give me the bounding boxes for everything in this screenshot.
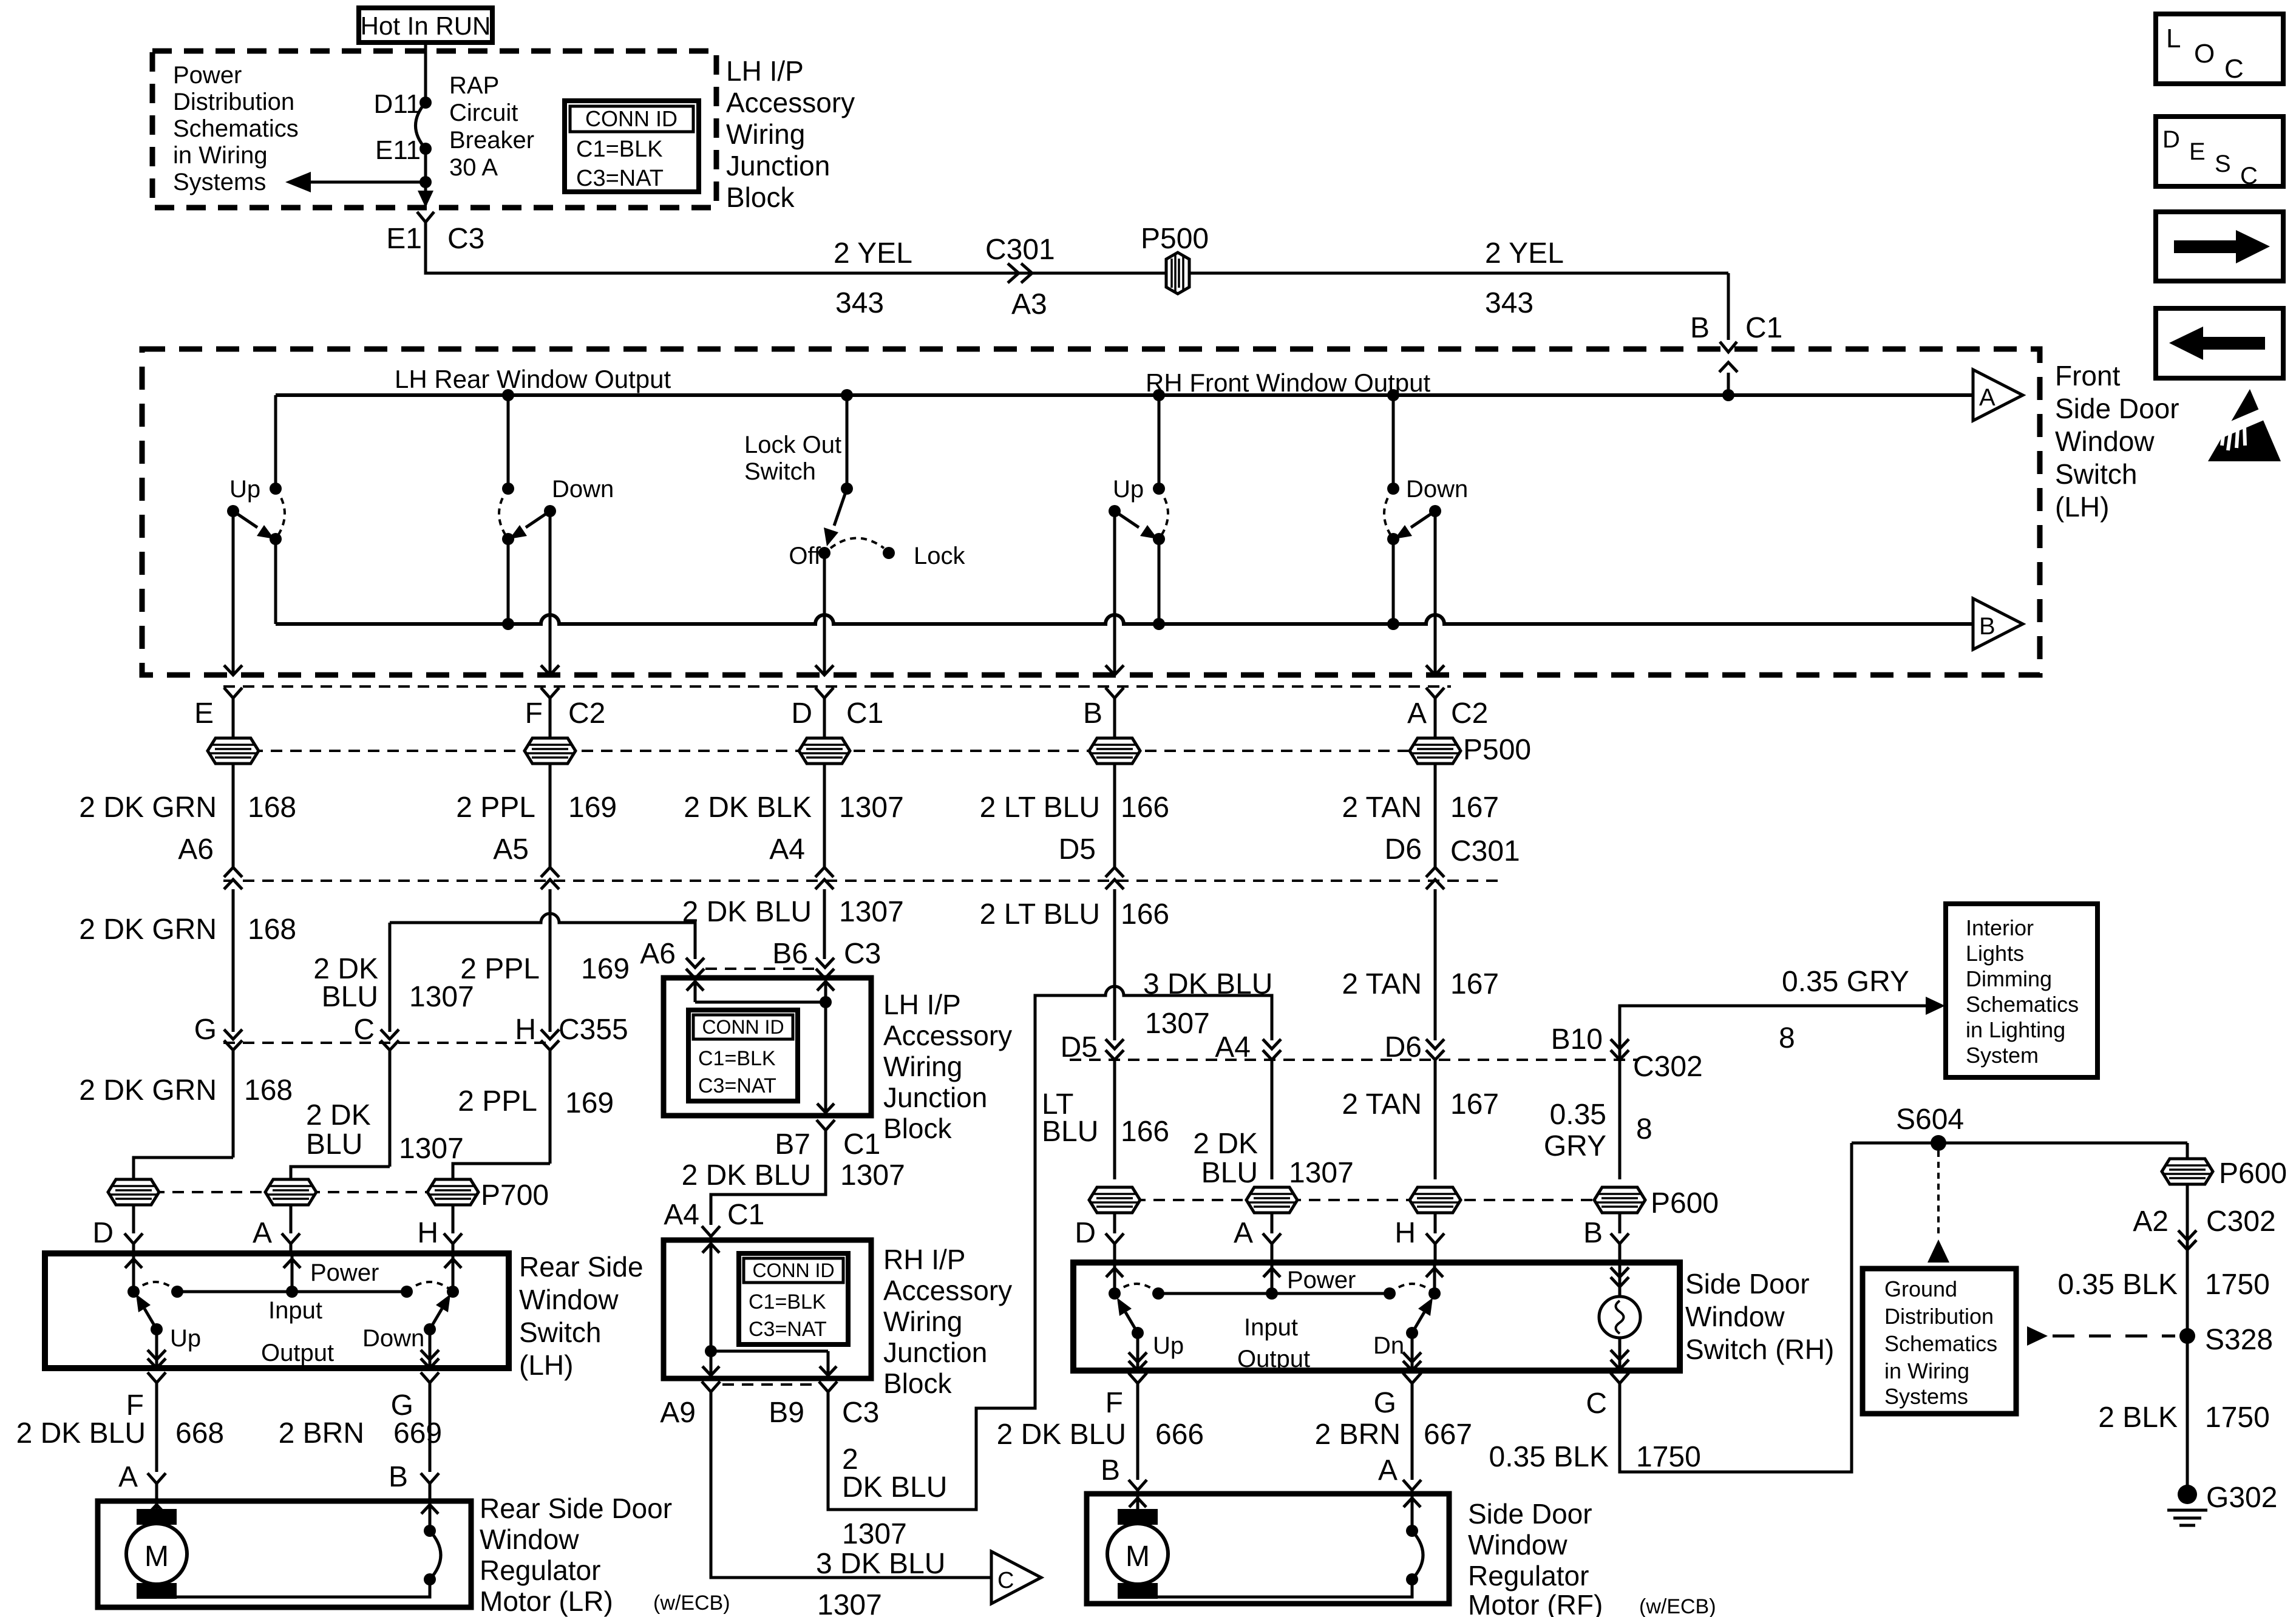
svg-text:B6: B6 (772, 938, 808, 970)
wire jog branch to P700 A (291, 1167, 390, 1179)
svg-text:C1: C1 (727, 1199, 764, 1231)
svg-text:A: A (118, 1461, 138, 1493)
svg-text:1307: 1307 (399, 1133, 464, 1165)
svg-text:1307: 1307 (817, 1589, 882, 1617)
svg-text:0.35 GRY: 0.35 GRY (1782, 966, 1909, 998)
connector pin A (RH switch) (1263, 1233, 1281, 1244)
svg-text:Power: Power (173, 62, 242, 89)
connector C301 A3 pass-through on feed wire (1008, 263, 1032, 283)
dashed box: Power Distribution Schematics (LH I/P junction block) (152, 51, 716, 208)
connector pin A (rear switch) (282, 1233, 300, 1244)
svg-text:2 BLK: 2 BLK (2098, 1402, 2178, 1434)
rear switch Down output arrow (429, 1329, 432, 1368)
nav box DESC (2156, 117, 2283, 186)
wire: 0.35 BLK 1750 from C to S604 (1620, 1143, 1852, 1472)
component box: Rear Side Door Window Regulator Motor (LR) (98, 1501, 471, 1607)
wire: power branch down at x642 (389, 923, 392, 1032)
rear switch travel arcs (dashed) (134, 1282, 177, 1292)
svg-text:Switch: Switch (519, 1317, 601, 1348)
svg-text:Schematics: Schematics (173, 115, 299, 142)
svg-text:Input: Input (268, 1297, 322, 1324)
nav box LOC (2156, 14, 2283, 84)
connector C302 pin D6 (1426, 1039, 1444, 1049)
svg-text:Hot In RUN: Hot In RUN (361, 12, 491, 40)
wire: right ground vertical (2186, 1143, 2189, 1488)
svg-text:Wiring: Wiring (883, 1051, 962, 1082)
connector triangle C (991, 1551, 1041, 1604)
motor RF B input arrow (1136, 1494, 1140, 1509)
svg-text:C1: C1 (843, 1128, 880, 1161)
connector P700 pass-through at x=746 (427, 1179, 478, 1205)
svg-text:Systems: Systems (173, 169, 266, 195)
svg-text:1750: 1750 (2205, 1402, 2270, 1434)
splice node S328 (2179, 1328, 2195, 1344)
svg-text:2 LT BLU: 2 LT BLU (980, 792, 1100, 824)
node E11 (419, 143, 432, 155)
wire power column to P600 A (1271, 1060, 1274, 1179)
svg-text:Schematics: Schematics (1966, 992, 2079, 1017)
connector C355 pin C (381, 1029, 399, 1039)
svg-text:A2: A2 (2133, 1205, 2169, 1238)
bottom bus junction nodes (502, 618, 514, 630)
svg-text:B10: B10 (1551, 1023, 1603, 1056)
svg-text:Up: Up (1153, 1332, 1184, 1359)
connector pin A (motor RF) (1403, 1480, 1421, 1490)
svg-text:C3: C3 (842, 1397, 879, 1429)
svg-text:2 TAN: 2 TAN (1342, 792, 1422, 824)
svg-text:Up: Up (229, 476, 260, 503)
svg-text:Side Door: Side Door (1468, 1498, 1592, 1530)
wire drop to B C1 of front switch (1727, 273, 1730, 340)
wire A column to P600 H (1434, 1060, 1437, 1179)
svg-text:3 DK BLU: 3 DK BLU (1143, 968, 1272, 1000)
svg-text:Block: Block (883, 1113, 952, 1144)
svg-text:Down: Down (552, 476, 614, 503)
motor RF A input arrow (1411, 1494, 1414, 1531)
connector pin G (fork) (421, 1372, 439, 1383)
connector P500 pass-through at x=906 (525, 738, 576, 764)
connector row C301 (dashed) (223, 880, 1506, 882)
svg-text:2 YEL: 2 YEL (834, 237, 912, 269)
svg-text:1750: 1750 (1636, 1441, 1701, 1473)
svg-text:1307: 1307 (840, 1159, 905, 1192)
connector P600 pass-through (right) (2162, 1159, 2213, 1184)
rear switch input bus (177, 1290, 407, 1293)
svg-text:Up: Up (170, 1325, 201, 1352)
CONN ID table (LH I/P middle) (688, 1010, 798, 1101)
svg-text:D11: D11 (374, 89, 421, 119)
ESD sensitive device symbol (2208, 389, 2281, 461)
svg-text:2 DK GRN: 2 DK GRN (79, 914, 217, 946)
RH junction internal bus (705, 1345, 717, 1357)
svg-text:D: D (92, 1217, 114, 1249)
svg-text:A4: A4 (664, 1199, 699, 1231)
connector C301 pin A4 (815, 867, 834, 877)
svg-text:(LH): (LH) (519, 1349, 573, 1381)
component box: Ground Distribution Schematics in Wiring Systems (1863, 1269, 2016, 1414)
svg-text:2 YEL: 2 YEL (1485, 237, 1564, 269)
motor LR B input arrow (429, 1501, 432, 1531)
svg-text:669: 669 (393, 1417, 442, 1449)
svg-text:2 PPL: 2 PPL (458, 1085, 537, 1117)
svg-text:in Wiring: in Wiring (173, 142, 268, 169)
junction node with arrow to Power Distribution (419, 176, 432, 188)
RH switch Up blade (1132, 1327, 1144, 1339)
RH switch Dn blade (1406, 1327, 1418, 1339)
svg-text:C: C (1586, 1388, 1607, 1420)
svg-text:Accessory: Accessory (726, 87, 855, 118)
svg-text:B: B (1583, 1217, 1603, 1249)
motor M symbol (LR) (137, 1509, 177, 1525)
svg-text:343: 343 (1485, 287, 1533, 319)
motor LR internal bottom wire (157, 1579, 430, 1599)
connector pin H (RH switch) (1426, 1233, 1444, 1244)
svg-text:P600: P600 (1651, 1187, 1719, 1219)
svg-text:Junction: Junction (883, 1337, 987, 1368)
node D11 (419, 97, 432, 109)
svg-text:167: 167 (1450, 792, 1499, 824)
svg-text:C: C (2240, 163, 2258, 189)
svg-text:CONN ID: CONN ID (702, 1016, 784, 1038)
connector C302 pin A2 (2178, 1230, 2196, 1240)
connector pin A (motor LR) (148, 1473, 166, 1483)
svg-text:Down: Down (1406, 476, 1468, 503)
svg-text:2 DK BLU: 2 DK BLU (997, 1419, 1126, 1451)
svg-text:Junction: Junction (726, 150, 830, 181)
svg-text:Side Door: Side Door (1685, 1268, 1810, 1300)
svg-text:A: A (1407, 697, 1427, 730)
svg-text:Regulator: Regulator (480, 1554, 600, 1586)
svg-text:Lock: Lock (914, 543, 965, 569)
motor LR A input arrow (155, 1501, 158, 1509)
svg-text:0.35: 0.35 (1550, 1099, 1606, 1131)
svg-text:BLU: BLU (322, 981, 378, 1013)
svg-text:E11: E11 (375, 135, 421, 165)
svg-text:2 DK BLU: 2 DK BLU (16, 1417, 146, 1449)
connector C302 pin D5 (1106, 1039, 1124, 1049)
splice S604 wire (1852, 1142, 2187, 1145)
svg-text:1307: 1307 (1289, 1157, 1354, 1189)
svg-text:M: M (1126, 1541, 1150, 1573)
svg-text:A3: A3 (1011, 288, 1047, 320)
svg-text:Side Door: Side Door (2055, 393, 2179, 424)
svg-text:3 DK BLU: 3 DK BLU (816, 1548, 945, 1580)
svg-text:Power: Power (1287, 1267, 1356, 1293)
svg-text:Switch (RH): Switch (RH) (1685, 1334, 1834, 1365)
wire: 0.35 GRY 8 to interior lights dimming (1620, 1006, 1926, 1060)
svg-text:BLU: BLU (1042, 1116, 1098, 1148)
svg-text:Window: Window (1468, 1529, 1567, 1561)
svg-text:Window: Window (2055, 425, 2155, 457)
wire from Hot In RUN to breaker (424, 42, 427, 103)
svg-text:RAP: RAP (449, 72, 499, 99)
svg-text:Distribution: Distribution (173, 89, 294, 115)
RH switch Power input arrow (1271, 1264, 1274, 1293)
svg-text:H: H (417, 1217, 438, 1249)
svg-text:H: H (1394, 1217, 1416, 1249)
connector P500 pass-through at x=1836 (1089, 738, 1140, 764)
svg-text:169: 169 (565, 1087, 614, 1119)
nav box arrow right (2156, 212, 2283, 281)
connector row C3 of LH I/P (dashed) (705, 968, 817, 970)
RH switch H input arrow (1433, 1264, 1436, 1293)
connector pin B7 C1 (fork) (817, 1120, 835, 1130)
rear switch Power input arrow (291, 1255, 294, 1292)
wire: power tap from A6 of junction block (hops F column) (390, 914, 695, 959)
RH switch Dn output arrow (1411, 1333, 1414, 1371)
svg-text:0.35 BLK: 0.35 BLK (1489, 1441, 1609, 1473)
svg-text:Wiring: Wiring (883, 1306, 962, 1337)
svg-text:2 DK BLU: 2 DK BLU (682, 896, 812, 928)
svg-text:169: 169 (581, 953, 630, 985)
svg-text:Distribution: Distribution (1884, 1304, 1994, 1329)
connector pin H (rear switch) (444, 1233, 462, 1244)
svg-text:in Lighting: in Lighting (1966, 1017, 2065, 1042)
svg-text:A6: A6 (178, 833, 214, 866)
svg-text:Lock Out: Lock Out (744, 432, 841, 458)
svg-text:Accessory: Accessory (883, 1275, 1012, 1306)
svg-text:G: G (1374, 1387, 1396, 1419)
svg-text:M: M (144, 1541, 169, 1573)
motor RF internal bottom wire (1138, 1579, 1412, 1599)
circuit breaker RAP 30A arc (416, 103, 426, 149)
svg-text:D: D (1075, 1217, 1096, 1249)
svg-text:B: B (1101, 1454, 1120, 1486)
svg-text:1307: 1307 (409, 981, 474, 1013)
svg-text:Accessory: Accessory (883, 1020, 1012, 1051)
svg-text:166: 166 (1121, 792, 1169, 824)
svg-text:Output: Output (261, 1340, 334, 1366)
svg-text:C1=BLK: C1=BLK (698, 1047, 776, 1070)
wire B10 column to P600 B (1618, 1060, 1622, 1179)
svg-text:(w/ECB): (w/ECB) (653, 1592, 730, 1615)
nav box arrow left (2156, 308, 2283, 378)
arrow down to E1 pin (424, 182, 427, 205)
wire A column below C301 (1434, 889, 1437, 1040)
connector row P600 (dashed) (1115, 1199, 1646, 1201)
svg-text:B: B (1979, 613, 1995, 640)
connector pin A C2 (fork) (1426, 688, 1444, 698)
svg-text:D6: D6 (1385, 833, 1422, 866)
svg-text:C1=BLK: C1=BLK (749, 1290, 826, 1314)
svg-text:Schematics: Schematics (1884, 1331, 1997, 1356)
svg-text:DK BLU: DK BLU (842, 1471, 947, 1503)
svg-text:1307: 1307 (839, 792, 904, 824)
svg-text:C302: C302 (1633, 1051, 1703, 1083)
ground G302 (2178, 1485, 2197, 1504)
svg-text:Lights: Lights (1966, 941, 2024, 966)
svg-text:1307: 1307 (1145, 1008, 1210, 1040)
svg-text:Circuit: Circuit (449, 100, 518, 126)
svg-text:A9: A9 (660, 1397, 696, 1429)
svg-text:Rear Side Door: Rear Side Door (480, 1493, 672, 1524)
svg-text:166: 166 (1121, 898, 1169, 931)
rear switch Up blade (151, 1323, 163, 1335)
connector C302 pin B10 (1611, 1039, 1629, 1049)
svg-text:166: 166 (1121, 1116, 1169, 1148)
svg-text:A: A (253, 1217, 272, 1249)
svg-text:Window: Window (1685, 1301, 1785, 1332)
top bus junction nodes (502, 389, 514, 401)
svg-text:CONN ID: CONN ID (752, 1259, 834, 1281)
RH switch input bus (1158, 1292, 1390, 1295)
connector pin G (RH fork) (1403, 1373, 1421, 1383)
connector pin F (fork) (148, 1372, 166, 1383)
switch: RH front Up (1158, 395, 1161, 489)
svg-text:B: B (1083, 697, 1102, 730)
svg-text:30 A: 30 A (449, 154, 498, 181)
connector pin B (fork) (1106, 688, 1124, 698)
component box: LH I/P Accessory Wiring Junction Block (middle) (664, 978, 871, 1116)
rear switch Down blade (424, 1323, 436, 1335)
connector P500 pass-through at x=1358 (799, 738, 850, 764)
switch: lockout (846, 395, 849, 489)
svg-text:Dn: Dn (1373, 1332, 1404, 1359)
wire: 2 YEL 343 feed from E1 to front switch (426, 222, 1728, 273)
dashed reference drop from S604 (1937, 1151, 1940, 1236)
svg-text:CONN ID: CONN ID (585, 106, 678, 131)
connector row below switch (dashed) (223, 685, 1451, 688)
connector C355 pin H (541, 1029, 559, 1039)
svg-text:C: C (997, 1568, 1014, 1593)
svg-text:LH I/P: LH I/P (726, 55, 804, 87)
svg-text:S328: S328 (2205, 1324, 2273, 1356)
svg-text:F: F (1106, 1387, 1123, 1419)
RH switch travel arcs (dashed) (1115, 1284, 1158, 1293)
connector row P500 (dashed) (212, 750, 1457, 752)
svg-text:8: 8 (1636, 1113, 1652, 1145)
svg-text:BLU: BLU (306, 1128, 362, 1161)
connector P600 pass-through at x=2364 (1410, 1187, 1461, 1213)
svg-text:C: C (353, 1014, 375, 1046)
svg-text:2 DK: 2 DK (1193, 1128, 1258, 1160)
svg-text:169: 169 (568, 792, 617, 824)
svg-text:Window: Window (480, 1524, 579, 1555)
svg-text:A6: A6 (640, 938, 676, 970)
Hot In RUN power label box (359, 8, 492, 42)
RH switch Up output arrow (1136, 1333, 1140, 1371)
connector pin A6 into LH I/P block (686, 958, 704, 968)
svg-text:E1: E1 (386, 223, 422, 255)
connector pin B (RH switch) (1611, 1233, 1629, 1244)
svg-text:C3: C3 (844, 938, 881, 970)
connector C355 pin G (224, 1029, 242, 1039)
svg-text:Switch: Switch (2055, 458, 2137, 490)
CONN ID table (LH I/P) (565, 101, 699, 192)
svg-text:Junction: Junction (883, 1082, 987, 1113)
connector C301 pin D5 (1106, 867, 1124, 877)
motor M symbol (RF) (1118, 1509, 1158, 1525)
svg-text:C301: C301 (1450, 835, 1520, 867)
switch: LH rear Down (507, 395, 510, 489)
wire: 2 DK BLU 1307 from B7 to A4 (711, 1130, 826, 1225)
svg-text:C3: C3 (447, 223, 484, 255)
svg-text:Front: Front (2055, 360, 2121, 392)
svg-text:P500: P500 (1463, 734, 1531, 766)
svg-text:2 DK BLU: 2 DK BLU (682, 1159, 811, 1192)
connector P700 pass-through at x=220 (108, 1179, 159, 1205)
svg-text:C302: C302 (2206, 1205, 2276, 1238)
component box: Rear Side Window Switch (LH) (45, 1253, 509, 1368)
svg-text:Block: Block (883, 1368, 952, 1399)
svg-text:P500: P500 (1141, 223, 1209, 255)
svg-text:C2: C2 (1451, 697, 1488, 730)
wire jog F column to P700 H (453, 1164, 550, 1179)
connector C301 pin A6 (224, 867, 242, 877)
svg-text:666: 666 (1155, 1419, 1204, 1451)
connector pin B6 C3 into LH I/P block (816, 958, 834, 968)
svg-text:167: 167 (1450, 968, 1499, 1000)
svg-text:C1: C1 (1745, 312, 1782, 344)
svg-text:C301: C301 (985, 234, 1055, 266)
connector row C355 (dashed) (223, 1042, 549, 1044)
connector row P700 (dashed) (134, 1191, 480, 1193)
svg-text:A5: A5 (493, 833, 529, 866)
svg-text:GRY: GRY (1544, 1130, 1606, 1162)
switch: RH front Down (1392, 395, 1395, 489)
svg-text:A: A (1234, 1217, 1253, 1249)
CONN ID table (RH I/P) (739, 1253, 848, 1344)
svg-text:668: 668 (175, 1417, 224, 1449)
svg-text:G302: G302 (2206, 1482, 2277, 1514)
wire E11 to junction (424, 149, 427, 182)
dashed reference arrow to S328 (2027, 1326, 2048, 1346)
svg-text:2 BRN: 2 BRN (279, 1417, 364, 1449)
wire D column below C301 (823, 889, 826, 959)
RH switch D input arrow (1113, 1264, 1116, 1293)
svg-text:D5: D5 (1059, 833, 1096, 866)
svg-text:E: E (194, 697, 214, 730)
svg-text:Power: Power (310, 1259, 379, 1286)
connector C301 pin D6 (1426, 867, 1444, 877)
svg-text:C2: C2 (568, 697, 605, 730)
component box: Interior Lights Dimming Schematics in Lighting System (1946, 904, 2097, 1077)
svg-text:Breaker: Breaker (449, 127, 534, 154)
svg-text:Up: Up (1113, 476, 1144, 503)
svg-text:H: H (515, 1014, 536, 1046)
dashed box: Front Side Door Window Switch (LH) (142, 349, 2040, 675)
wire B column below C301 (1113, 889, 1116, 1040)
RH switch illumination bulb (1618, 1264, 1622, 1297)
connector pin A9 (fork) (702, 1381, 720, 1392)
svg-text:Input: Input (1244, 1314, 1298, 1341)
top bus wire (276, 393, 1973, 397)
svg-text:Rear Side: Rear Side (519, 1251, 644, 1283)
svg-text:2 TAN: 2 TAN (1342, 1088, 1422, 1120)
svg-text:168: 168 (248, 914, 296, 946)
svg-text:Systems: Systems (1884, 1384, 1968, 1409)
connector P600 pass-through at x=2095 (1246, 1187, 1297, 1213)
svg-text:C3=NAT: C3=NAT (698, 1074, 776, 1097)
connector pin D C1 (fork) (815, 688, 834, 698)
svg-text:Interior: Interior (1966, 915, 2034, 940)
switch: LH rear Up (274, 395, 277, 489)
connector pin C (RH switch fork) (1611, 1373, 1629, 1383)
rear switch Up output arrow (155, 1329, 158, 1368)
connector pin D (RH switch) (1106, 1233, 1124, 1244)
svg-text:Dimming: Dimming (1966, 966, 2052, 991)
svg-text:Wiring: Wiring (726, 118, 805, 150)
svg-text:168: 168 (248, 792, 296, 824)
svg-text:C1: C1 (846, 697, 883, 730)
RH switch contact nodes (1109, 1287, 1121, 1300)
svg-text:O: O (2194, 39, 2215, 69)
rear switch D input arrow (132, 1255, 135, 1292)
svg-text:B: B (1690, 312, 1710, 344)
svg-text:L: L (2166, 24, 2181, 53)
svg-text:B7: B7 (775, 1128, 810, 1161)
component box: Side Door Window Regulator Motor (RF) (1087, 1494, 1449, 1604)
